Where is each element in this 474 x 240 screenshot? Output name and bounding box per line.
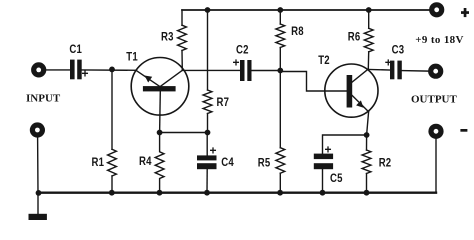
svg-text:R4: R4 xyxy=(139,155,152,168)
node rail/R8 xyxy=(277,7,283,13)
svg-text:INPUT: INPUT xyxy=(26,93,61,105)
svg-text:C1: C1 xyxy=(69,43,82,56)
svg-text:+: + xyxy=(210,144,217,158)
wire T2 base xyxy=(280,72,346,92)
ground xyxy=(29,193,47,220)
node R7/C4 junction xyxy=(205,130,211,136)
svg-text:C5: C5 xyxy=(330,172,343,185)
node ground rail left xyxy=(36,190,42,196)
svg-text:R1: R1 xyxy=(92,156,105,169)
node T1 emitter junction xyxy=(157,130,163,136)
node ground dots xyxy=(109,190,115,196)
resistor R5 xyxy=(276,71,285,193)
text - supply xyxy=(460,129,467,132)
svg-text:+9 to 18V: +9 to 18V xyxy=(415,34,464,46)
wire T1 collector to C2 xyxy=(182,69,240,71)
resistor R6 xyxy=(364,10,373,69)
wire input terminal to C1 xyxy=(46,69,70,71)
svg-text:+: + xyxy=(82,67,89,81)
wire C1 to T1 base entry xyxy=(82,69,136,71)
svg-text:R6: R6 xyxy=(348,30,361,43)
svg-text:C3: C3 xyxy=(392,44,405,57)
terminal INPUT lower xyxy=(30,122,45,137)
resistor R4 xyxy=(155,133,164,193)
svg-text:R2: R2 xyxy=(379,157,392,170)
svg-text:+: + xyxy=(385,56,392,70)
resistor R2 xyxy=(362,135,371,193)
top supply rail xyxy=(182,9,430,11)
capacitor C3 xyxy=(390,61,402,80)
node rail/R6 xyxy=(366,7,372,13)
node input/R1 junction xyxy=(109,67,115,73)
capacitor C1 xyxy=(70,60,82,80)
transistor T1 xyxy=(131,58,189,133)
svg-text:+: + xyxy=(325,143,332,157)
terminal INPUT upper xyxy=(31,62,46,77)
wire T2 collector to C3 xyxy=(368,68,390,71)
capacitor C4 xyxy=(197,133,217,193)
wire C3 to output terminal xyxy=(402,70,429,73)
svg-text:T2: T2 xyxy=(318,54,330,67)
svg-text:R3: R3 xyxy=(161,30,174,43)
node emitter/R2/C5 junction xyxy=(364,132,370,138)
wire lower input terminal to ground rail xyxy=(37,137,39,193)
svg-text:R8: R8 xyxy=(291,25,304,38)
svg-text:OUTPUT: OUTPUT xyxy=(411,93,458,105)
resistor R8 xyxy=(276,10,285,71)
transistor T2 xyxy=(325,64,378,117)
svg-text:T1: T1 xyxy=(126,51,138,64)
wire emitter junction to R7/C4 junction xyxy=(160,132,208,134)
svg-text:C4: C4 xyxy=(221,156,234,169)
terminal OUTPUT xyxy=(428,64,443,79)
node C2/R8/R5 junction xyxy=(277,68,283,74)
wire C2 to R8/R5 node xyxy=(252,70,281,72)
capacitor C5 xyxy=(314,154,333,193)
resistor R7 xyxy=(203,10,212,133)
ground rail xyxy=(38,191,436,193)
svg-text:R7: R7 xyxy=(217,96,230,109)
terminal -V xyxy=(428,124,443,139)
resistor R1 xyxy=(108,69,117,192)
resistor R3 xyxy=(178,10,187,70)
terminal +V xyxy=(429,2,444,17)
svg-text:+: + xyxy=(233,56,240,70)
capacitor C2 xyxy=(240,60,252,81)
text + supply xyxy=(461,8,469,17)
wire T2 emitter down xyxy=(367,112,369,135)
node rail/R7 xyxy=(205,7,211,13)
svg-text:R5: R5 xyxy=(258,157,271,170)
wire emitter junction to C5 xyxy=(323,135,367,154)
wire -V terminal to ground rail xyxy=(435,139,437,193)
